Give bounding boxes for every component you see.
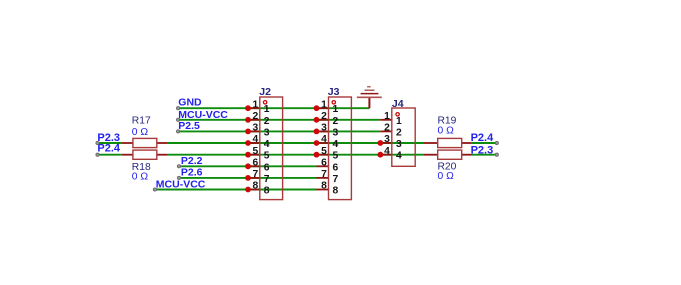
J2 pin numbers outside 1-8: [252, 99, 258, 191]
label R20: [438, 162, 457, 173]
svg-text:J2: J2: [259, 86, 271, 98]
wire net row5 R18 to R20: [168, 154, 424, 156]
wire net MCU-VCC row2: [178, 119, 380, 121]
value R17 0 ohm: [132, 127, 149, 138]
resistor R19 leads: [424, 142, 472, 144]
svg-text:MCU-VCC: MCU-VCC: [178, 109, 228, 121]
svg-text:3: 3: [264, 127, 270, 138]
svg-text:2: 2: [321, 111, 327, 122]
wire end marker P2.5 label: [177, 130, 180, 133]
svg-text:4: 4: [321, 134, 327, 145]
svg-text:3: 3: [252, 123, 258, 134]
svg-text:4: 4: [384, 146, 390, 157]
svg-text:8: 8: [264, 186, 270, 197]
svg-text:P2.4: P2.4: [97, 143, 121, 155]
svg-text:GND: GND: [178, 97, 202, 109]
wire net row4 R17 to R19: [168, 142, 424, 144]
svg-text:1: 1: [333, 104, 339, 115]
svg-text:J3: J3: [328, 86, 340, 98]
wire net GND row1: [178, 107, 369, 109]
svg-text:2: 2: [384, 123, 390, 134]
port P2.4 right: [471, 132, 495, 144]
svg-text:7: 7: [264, 174, 270, 185]
svg-text:4: 4: [333, 139, 339, 150]
svg-text:P2.2: P2.2: [181, 155, 203, 167]
svg-text:1: 1: [321, 99, 327, 110]
wire net row4 right: [472, 142, 497, 144]
resistor R18 body: [133, 150, 157, 159]
svg-text:1: 1: [252, 99, 258, 110]
svg-text:1: 1: [264, 104, 270, 115]
wire end marker MCU-VCC row8 label: [153, 188, 156, 191]
wire net P2.2 row6: [179, 165, 317, 167]
svg-text:3: 3: [384, 134, 390, 145]
svg-text:6: 6: [252, 157, 258, 168]
resistor R19 body: [438, 138, 462, 147]
svg-text:5: 5: [321, 146, 327, 157]
label R18: [132, 162, 151, 173]
svg-text:5: 5: [333, 151, 339, 162]
connector J4 body: [392, 108, 415, 166]
svg-text:P2.6: P2.6: [181, 167, 203, 179]
connector J2 pin stubs: [248, 108, 260, 189]
connector J3 pin1 indicator: [332, 101, 335, 104]
port P2.3 left: [97, 132, 120, 144]
svg-text:0 Ω: 0 Ω: [438, 171, 455, 182]
junction dots at J2 pins: [245, 105, 251, 192]
value R18 0 ohm: [132, 171, 149, 182]
svg-text:8: 8: [333, 186, 339, 197]
label R17: [132, 116, 151, 127]
svg-text:1: 1: [384, 111, 390, 122]
svg-text:2: 2: [396, 127, 402, 138]
wire net P2.6 row7: [179, 177, 317, 179]
node label P2.2: [181, 155, 203, 167]
svg-text:7: 7: [321, 169, 327, 180]
svg-text:MCU-VCC: MCU-VCC: [156, 179, 206, 191]
svg-text:0 Ω: 0 Ω: [132, 171, 149, 182]
resistor R20 body: [438, 150, 462, 159]
label R19: [438, 115, 457, 126]
svg-text:P2.3: P2.3: [471, 145, 494, 157]
svg-text:8: 8: [252, 181, 258, 192]
node label P2.6: [181, 167, 203, 179]
port P2.3 right: [471, 145, 494, 157]
wire net MCU-VCC row8: [155, 189, 317, 191]
J4 pin numbers outside 1-4: [384, 111, 390, 157]
ground symbol (earth) on net GND: [357, 87, 382, 108]
svg-text:4: 4: [396, 151, 402, 162]
junction dots at J3 pins 1-5: [314, 105, 320, 157]
svg-text:6: 6: [264, 162, 270, 173]
connector J3 pin stubs: [317, 108, 329, 189]
wire end marker P2.3 right: [495, 153, 498, 156]
value R20 0 ohm: [438, 171, 455, 182]
resistor R17 body: [133, 138, 157, 147]
J3 pin names inside 1-8: [333, 104, 339, 196]
svg-text:0 Ω: 0 Ω: [438, 125, 455, 136]
wire net P2.4 left stub row5: [98, 154, 122, 156]
connector J4 pin1 indicator: [396, 113, 399, 116]
wire net row5 right: [472, 154, 497, 156]
svg-text:P2.5: P2.5: [178, 120, 200, 132]
svg-text:J4: J4: [392, 98, 404, 110]
port P2.4 left: [97, 143, 121, 155]
svg-text:7: 7: [252, 169, 258, 180]
svg-text:6: 6: [321, 157, 327, 168]
svg-text:3: 3: [321, 123, 327, 134]
J2 pin names inside 1-8: [264, 104, 270, 196]
wire end marker P2.4 right: [495, 141, 498, 144]
svg-text:4: 4: [252, 134, 258, 145]
wire end marker P2.2 label: [177, 165, 180, 168]
connector J3 body: [329, 97, 352, 200]
wire net P2.5 row3: [178, 130, 380, 132]
wire end marker P2.3 left: [96, 141, 99, 144]
resistor R17 leads: [122, 142, 168, 144]
label J2: [259, 86, 271, 98]
J3 pin numbers outside 1-8: [321, 99, 327, 191]
svg-text:2: 2: [252, 111, 258, 122]
svg-text:8: 8: [321, 181, 327, 192]
wire end marker P2.4 left: [96, 153, 99, 156]
wire end marker GND label: [177, 107, 180, 110]
connector J2 body: [260, 97, 283, 200]
svg-text:5: 5: [252, 146, 258, 157]
svg-text:R17: R17: [132, 116, 151, 127]
svg-text:5: 5: [264, 151, 270, 162]
junction dots at J4 pins 3-4: [377, 140, 383, 158]
wire end marker P2.6 label: [177, 176, 180, 179]
label J3: [328, 86, 340, 98]
connector J4 pin stubs: [380, 120, 392, 155]
node label P2.5: [178, 120, 200, 132]
node label MCU-VCC row8: [156, 179, 206, 191]
resistor R18 leads: [122, 154, 168, 156]
connector J2 pin1 indicator: [263, 101, 266, 104]
value R19 0 ohm: [438, 125, 455, 136]
svg-text:6: 6: [333, 162, 339, 173]
node label GND: [178, 97, 202, 109]
node label MCU-VCC row2: [178, 109, 228, 121]
svg-text:P2.4: P2.4: [471, 132, 495, 144]
svg-text:1: 1: [396, 116, 402, 127]
svg-text:7: 7: [333, 174, 339, 185]
svg-text:2: 2: [333, 116, 339, 127]
svg-text:2: 2: [264, 116, 270, 127]
svg-text:3: 3: [333, 127, 339, 138]
svg-text:0 Ω: 0 Ω: [132, 127, 149, 138]
wire net P2.3 left stub row4: [98, 142, 122, 144]
svg-text:3: 3: [396, 139, 402, 150]
label J4: [392, 98, 404, 110]
wire end marker MCU-VCC row2 label: [177, 118, 180, 121]
J4 pin names inside 1-4: [396, 116, 402, 162]
svg-text:4: 4: [264, 139, 270, 150]
resistor R20 leads: [424, 154, 472, 156]
